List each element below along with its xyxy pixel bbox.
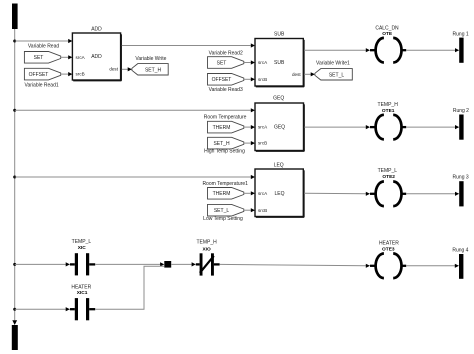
- svg-text:srcA: srcA: [76, 55, 86, 60]
- wire coil OTE3 to rail: [406, 264, 459, 268]
- wire THERM to LEQ srcA: [244, 191, 255, 195]
- wire SET to ADD srcA: [61, 55, 73, 59]
- svg-text:dest: dest: [109, 67, 118, 72]
- svg-text:Rung 3: Rung 3: [453, 175, 469, 181]
- input tag OFFSET: [24, 68, 60, 80]
- wire ADD to SUB: [122, 43, 255, 47]
- node rung4 tap: [13, 263, 16, 266]
- wire XIO to coil OTE3: [220, 264, 370, 268]
- svg-text:OTE3: OTE3: [382, 246, 395, 252]
- wire SUB dest to SET_L: [304, 72, 315, 76]
- wire ADD dest to SET_H: [122, 67, 132, 71]
- input tag SET_L (Low Temp Setting): [208, 204, 244, 216]
- wire coil OTE to rail: [406, 48, 459, 52]
- contact XIC1 HEATER: [70, 298, 95, 320]
- contact XIC TEMP_L: [70, 253, 95, 275]
- wire junction to contact XIO: [171, 262, 196, 266]
- node rung3 tap: [13, 176, 16, 179]
- svg-text:Variable Read3: Variable Read3: [209, 87, 243, 93]
- svg-text:Rung 1: Rung 1: [453, 32, 469, 38]
- svg-text:THERM: THERM: [213, 125, 231, 131]
- wire OFFSET to SUB srcB: [244, 77, 255, 81]
- coil OTE: [370, 38, 406, 63]
- svg-text:GEQ: GEQ: [273, 96, 284, 102]
- wire SET_H to GEQ srcB: [244, 141, 255, 145]
- svg-text:srcA: srcA: [258, 60, 268, 65]
- node rung2 tap: [13, 109, 16, 112]
- svg-text:XIC: XIC: [78, 245, 87, 251]
- input tag THERM: [208, 121, 244, 133]
- coil OTE1: [370, 115, 406, 140]
- right rail Rung 3: [459, 181, 463, 206]
- svg-text:srcB: srcB: [258, 208, 267, 213]
- right rail Rung 4: [459, 254, 463, 279]
- wire coil OTE1 to rail: [406, 125, 459, 129]
- svg-text:XIC1: XIC1: [77, 290, 88, 296]
- svg-text:Variable Read1: Variable Read1: [25, 83, 59, 89]
- svg-text:THERM: THERM: [213, 191, 231, 197]
- svg-text:SET: SET: [217, 60, 227, 66]
- wire rail to GEQ: [15, 108, 255, 112]
- left power rail bottom arrow: [12, 320, 17, 325]
- output tag SET_L: [315, 69, 352, 80]
- svg-text:CALC_DN: CALC_DN: [375, 25, 399, 31]
- svg-text:OTE2: OTE2: [382, 174, 395, 180]
- svg-text:GEQ: GEQ: [274, 125, 285, 131]
- wire rail to contact XIC1: [15, 307, 70, 311]
- wire GEQ to coil OTE1: [304, 125, 370, 129]
- coil OTE3: [370, 254, 406, 279]
- svg-text:SET_L: SET_L: [329, 72, 345, 78]
- svg-text:HEATER: HEATER: [379, 240, 399, 246]
- node rung4 branch tap: [13, 308, 16, 311]
- svg-text:TEMP_L: TEMP_L: [72, 239, 92, 245]
- wire rail to LEQ: [15, 175, 255, 179]
- svg-text:srcA: srcA: [258, 125, 268, 130]
- contact XIO TEMP_H: [196, 253, 220, 275]
- svg-text:Variable Write: Variable Write: [135, 56, 166, 62]
- svg-text:SUB: SUB: [274, 31, 285, 37]
- svg-text:Variable Read2: Variable Read2: [209, 50, 243, 56]
- wire rail to contact XIC: [15, 262, 70, 266]
- wire SUB to coil OTE: [304, 48, 370, 52]
- svg-text:OFFSET: OFFSET: [212, 77, 232, 83]
- input tag SET: [24, 52, 60, 64]
- svg-text:High Temp Setting: High Temp Setting: [204, 149, 245, 155]
- input tag THERM (Room Temperature1): [208, 188, 244, 200]
- svg-text:Variable Read: Variable Read: [28, 43, 60, 49]
- function block SUB: [255, 31, 304, 86]
- left power rail bottom bar: [12, 325, 18, 350]
- input tag OFFSET (Variable Read3): [208, 74, 244, 86]
- svg-text:SET_L: SET_L: [214, 208, 230, 214]
- svg-text:OFFSET: OFFSET: [29, 72, 49, 78]
- svg-text:dest: dest: [292, 72, 301, 77]
- wire SET to SUB srcA: [244, 60, 255, 64]
- svg-text:HEATER: HEATER: [71, 285, 91, 291]
- right rail Rung 2: [459, 115, 463, 140]
- output tag SET_H: [132, 64, 168, 75]
- svg-text:TEMP_H: TEMP_H: [378, 102, 399, 108]
- wire SET_L to LEQ srcB: [244, 208, 255, 212]
- right rail Rung 1: [459, 38, 463, 63]
- wire THERM to GEQ srcA: [244, 125, 255, 129]
- node rung1 tap: [13, 40, 16, 43]
- svg-text:TEMP_L: TEMP_L: [378, 168, 398, 174]
- svg-text:OTE1: OTE1: [382, 108, 395, 114]
- left power rail wire: [14, 29, 16, 320]
- left power rail top bar: [12, 4, 18, 30]
- wire coil OTE2 to rail: [406, 192, 459, 196]
- svg-text:OTE: OTE: [382, 31, 393, 37]
- function block ADD: [72, 26, 121, 81]
- svg-text:TEMP_H: TEMP_H: [196, 239, 217, 245]
- svg-text:ADD: ADD: [91, 54, 102, 60]
- junction merge square: [164, 261, 171, 268]
- svg-text:srcB: srcB: [76, 72, 85, 77]
- svg-text:Low Temp Setting: Low Temp Setting: [203, 216, 243, 222]
- svg-text:XIO: XIO: [202, 246, 211, 252]
- wire OFFSET to ADD srcB: [61, 72, 73, 76]
- svg-text:ADD: ADD: [91, 26, 102, 32]
- wire LEQ to coil OTE2: [304, 192, 370, 196]
- coil OTE2: [370, 182, 406, 207]
- svg-text:LEQ: LEQ: [274, 191, 284, 197]
- wire rail to ADD: [15, 39, 73, 43]
- svg-text:SET: SET: [34, 55, 44, 61]
- svg-text:Room Temperature: Room Temperature: [204, 114, 247, 120]
- function block GEQ: [255, 96, 304, 152]
- svg-text:srcA: srcA: [258, 191, 268, 196]
- svg-text:SET_H: SET_H: [145, 67, 162, 73]
- wire XIC to junction: [95, 262, 164, 266]
- svg-text:srcB: srcB: [258, 141, 267, 146]
- function block LEQ: [255, 162, 304, 217]
- wire XIC1 branch riser to junction: [95, 266, 164, 309]
- svg-text:Variable Write1: Variable Write1: [316, 60, 350, 66]
- svg-text:Rung 2: Rung 2: [453, 108, 469, 114]
- svg-text:LEQ: LEQ: [274, 162, 284, 168]
- input tag SET_H (High Temp Setting): [208, 137, 244, 149]
- svg-text:Room Temperature1: Room Temperature1: [202, 181, 248, 187]
- svg-text:SET_H: SET_H: [213, 141, 230, 147]
- svg-text:srcB: srcB: [258, 77, 267, 82]
- input tag SET (Variable Read2): [208, 57, 244, 69]
- svg-text:SUB: SUB: [274, 60, 285, 66]
- svg-text:Rung 4: Rung 4: [452, 247, 468, 253]
